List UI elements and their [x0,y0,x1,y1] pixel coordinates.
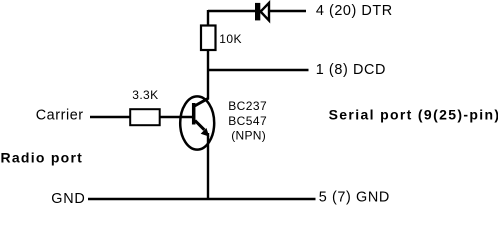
transistor Q1 emitter arrowhead [202,129,209,136]
wire vertical from R1 to collector junction [207,50,209,100]
transistor Q1 collector slant [195,99,209,107]
svg-text:Carrier: Carrier [36,107,84,123]
resistor R2 3.3K box [130,109,160,125]
transistor Q1 circle [180,96,214,149]
wire top horizontal (DTR to resistor top corner) [208,10,306,12]
svg-text:Radio port: Radio port [1,150,84,166]
diode D1 cathode bar [255,3,260,21]
wire emitter vertical down [207,133,209,199]
svg-text:3.3K: 3.3K [132,88,158,102]
transistor Q1 base bar [192,103,196,125]
diode D1 triangle [261,3,269,21]
wire R2 to transistor base [160,116,192,118]
svg-text:Serial port (9(25)-pin): Serial port (9(25)-pin) [329,106,498,122]
wire Carrier to R2 [90,116,130,118]
svg-text:4 (20) DTR: 4 (20) DTR [316,3,393,19]
wire vertical from top corner into resistor R1 [207,10,209,25]
transistor Q1 emitter slant [195,121,204,130]
svg-text:GND: GND [51,191,85,207]
svg-text:5 (7) GND: 5 (7) GND [319,190,390,206]
svg-text:1 (8) DCD: 1 (8) DCD [316,62,386,78]
svg-text:BC547: BC547 [228,114,267,128]
wire bottom horizontal GND [88,198,316,200]
svg-text:10K: 10K [219,32,242,46]
svg-text:BC237: BC237 [228,99,267,113]
wire DCD branch horizontal [208,69,309,71]
resistor R1 10K box [201,26,216,51]
svg-text:(NPN): (NPN) [231,129,266,143]
